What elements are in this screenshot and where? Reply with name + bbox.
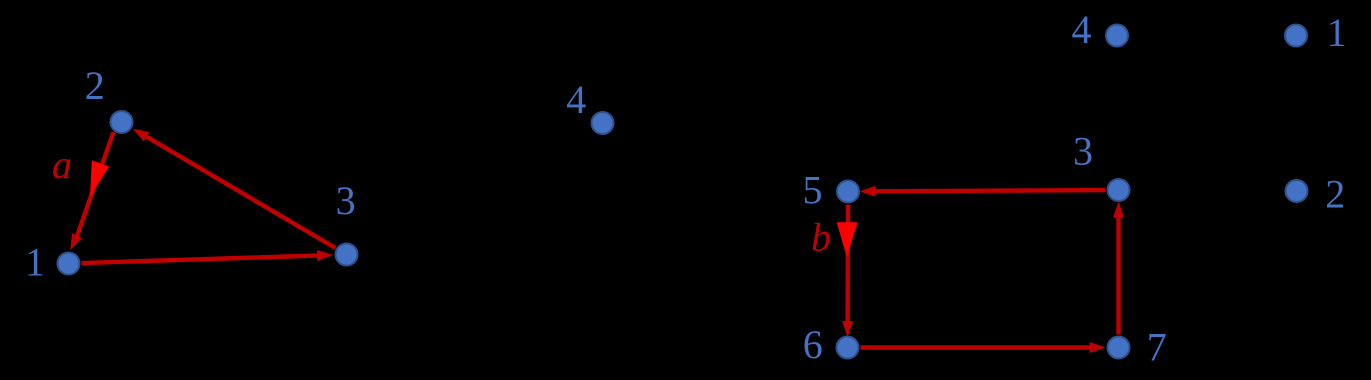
big red direction arrowhead on edge a (label a) [90,160,109,196]
svg-text:7: 7 [1147,325,1167,370]
node 1 (left graph) [58,253,80,275]
node 7 (right graph) [1108,337,1130,359]
node 2 (left graph) [111,111,133,133]
svg-text:3: 3 [1073,129,1093,174]
svg-text:1: 1 [25,240,45,285]
svg-text:4: 4 [566,77,586,122]
wire: edge from node 1 to node 3 (left graph), arrowhead at node 3 [82,250,334,263]
node 3 (left graph) [336,244,358,266]
svg-text:5: 5 [803,168,823,213]
node 3 (right graph) [1108,179,1130,201]
node 1 (right graph) [1285,25,1307,47]
big red direction arrowhead on edge b (label b) [837,222,858,257]
svg-text:2: 2 [1325,172,1345,217]
wire: edge a from node 2 to node 1 (left graph), curved connector [77,132,114,238]
svg-text:2: 2 [85,63,105,108]
node 6 (right graph) [837,337,859,359]
node 2 (right graph) [1286,180,1308,202]
node 4 (left graph, isolated) [592,112,614,134]
wire: edge from node 6 to node 7 (right graph), arrowhead at node 7 [861,342,1106,353]
svg-text:3: 3 [336,178,356,223]
arrowhead of edge a at node 1 [70,233,82,250]
wire: edge from node 7 to node 3 (right graph), arrowhead at node 3 [1113,202,1124,335]
node 4 (right graph) [1106,25,1128,47]
wire: edge from node 3 to node 2 (left graph), arrowhead at node 2 [133,129,336,248]
svg-text:b: b [811,215,831,260]
node 5 (right graph) [837,181,859,203]
wire: edge from node 3 to node 5 (right graph), arrowhead at node 5 [860,186,1106,197]
svg-text:1: 1 [1327,10,1347,55]
svg-text:a: a [52,142,72,187]
wire: edge b from node 5 to node 6 (right graph), arrowhead at node 6 [842,205,853,338]
svg-text:6: 6 [803,322,823,367]
svg-text:4: 4 [1072,7,1092,52]
